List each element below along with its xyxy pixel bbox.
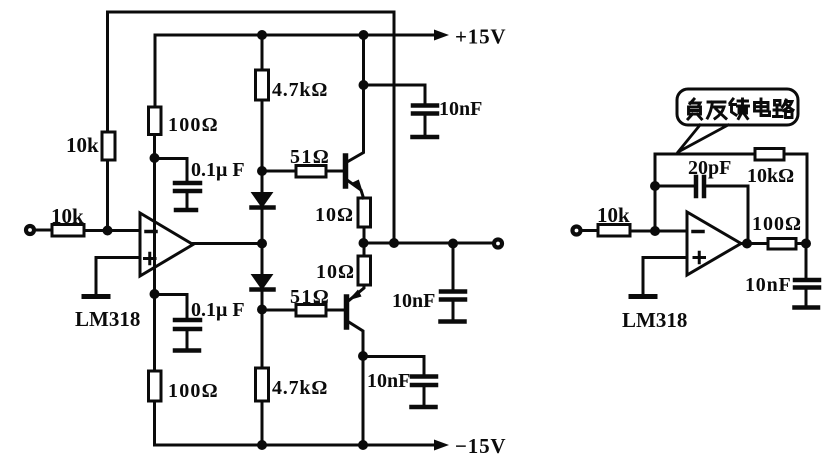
svg-text:LM318: LM318 <box>75 307 140 331</box>
svg-text:4.7kΩ: 4.7kΩ <box>272 79 328 101</box>
node output/emitter top <box>359 238 369 248</box>
wire junction up to feedback resistor <box>106 160 109 230</box>
svg-text:10k: 10k <box>66 133 99 157</box>
capacitor 10nF (right) stem + ground bar <box>805 290 808 306</box>
capacitor 10nF (top) stem + ground bar <box>424 116 427 135</box>
capacitor 10nF (top, +15V bypass): tap wire <box>364 85 426 103</box>
output terminal (left circuit) <box>494 240 502 248</box>
wire 4.7k lower to bottom rail <box>261 401 264 445</box>
svg-text:0.1μ F: 0.1μ F <box>191 159 245 181</box>
ground (left op-amp) <box>84 294 108 299</box>
wire feedback top run <box>655 153 807 156</box>
resistor 10 ohm (lower emitter) <box>358 256 371 285</box>
capacitor 0.1uF (lower): tap wire <box>155 295 188 319</box>
wire D2 to lower base node <box>261 291 264 368</box>
diode D1 <box>253 193 272 207</box>
node +15V / collector <box>359 30 369 40</box>
svg-text:51Ω: 51Ω <box>290 286 330 308</box>
node 20pF tap <box>650 181 660 191</box>
wire: top feedback run <box>108 11 395 14</box>
op-amp U1 LM318 (left) <box>140 213 193 276</box>
char 反 <box>708 102 727 119</box>
wire R10k to op-amp (right) <box>630 230 687 233</box>
wire op-amp output (right) <box>741 242 768 245</box>
capacitor 0.1uF (upper) plates <box>175 183 200 191</box>
wire -15V rail <box>155 444 437 447</box>
transistor Q2 emitter arrow <box>348 290 362 301</box>
wire inverting node up feedback left leg <box>654 154 657 231</box>
resistor 100 ohm (right, series out) <box>768 239 796 250</box>
wire +15V rail <box>155 34 436 37</box>
capacitor 10nF (right) plates <box>795 280 819 288</box>
svg-text:0.1μ F: 0.1μ F <box>191 299 245 321</box>
node output/10nF <box>448 239 458 249</box>
transistor Q1 collector <box>347 85 364 162</box>
node right output <box>801 239 811 249</box>
char 负 <box>688 99 702 119</box>
wire node to 51 ohm (lower) <box>262 309 296 312</box>
wire feedback resistor to top rail <box>106 12 109 132</box>
resistor 10k (feedback, vertical) <box>102 132 115 160</box>
node upper base drive <box>257 166 267 176</box>
wire input to R 10k <box>34 229 52 232</box>
node lower base drive <box>257 305 267 315</box>
wire: feedback drop to output rail <box>393 12 396 243</box>
capacitor 0.1uF (lower) plates <box>175 320 200 329</box>
capacitor 10nF (top) plates <box>413 106 437 114</box>
wire V+ node down through op-amp to V- node <box>153 158 156 294</box>
svg-text:10nF: 10nF <box>439 98 482 120</box>
svg-text:10Ω: 10Ω <box>316 261 355 283</box>
callout tail <box>678 125 728 152</box>
capacitor 0.1uF (lower) stem + ground bar <box>186 331 189 348</box>
svg-text:10kΩ: 10kΩ <box>747 165 794 187</box>
wire node to 51 ohm (upper) <box>262 170 296 173</box>
capacitor 20pF: left wire <box>655 185 694 188</box>
resistor 10k (series input, left) <box>52 225 84 237</box>
diode D2 <box>261 243 264 275</box>
transistor Q2 collector <box>348 322 363 357</box>
wire output rail <box>364 242 493 245</box>
node V+ tap <box>150 153 160 163</box>
svg-text:100Ω: 100Ω <box>752 213 802 235</box>
wire input to R 10k (right) <box>581 229 598 232</box>
input terminal (right) <box>573 227 581 235</box>
wire feedback right leg <box>806 154 809 243</box>
svg-text:100Ω: 100Ω <box>168 114 219 136</box>
node V- tap <box>150 289 160 299</box>
callout bubble (negative feedback circuit) <box>677 89 798 125</box>
wire output rail to 10 ohm lower <box>363 243 366 256</box>
op-amp U2 minus sign <box>693 230 703 234</box>
svg-text:10Ω: 10Ω <box>315 204 354 226</box>
svg-text:4.7kΩ: 4.7kΩ <box>272 377 328 399</box>
svg-text:20pF: 20pF <box>688 157 731 179</box>
op-amp U1 plus sign <box>145 253 156 264</box>
char 馈 <box>730 99 749 119</box>
arrowhead -15V <box>434 440 449 451</box>
transistor Q2 (PNP) base bar <box>344 297 350 327</box>
wire op-amp output to bias chain <box>193 242 262 245</box>
wire D1 to output node <box>261 208 264 243</box>
capacitor 0.1uF (upper): tap wire <box>155 159 188 182</box>
char 路 <box>774 100 794 118</box>
capacitor 10nF (bottom bypass): tap wire <box>363 357 424 375</box>
svg-text:10nF: 10nF <box>392 290 435 312</box>
svg-text:10k: 10k <box>597 203 630 227</box>
capacitor 0.1uF (upper) stem + ground bar <box>186 193 189 207</box>
op-amp U1 minus sign <box>146 230 156 234</box>
resistor 51 ohm (lower) <box>296 305 326 317</box>
svg-text:10k: 10k <box>51 204 84 228</box>
resistor 4.7k (lower) <box>256 368 269 401</box>
node -15V / 4.7k lower <box>257 440 267 450</box>
resistor 10 ohm (upper emitter) <box>358 198 371 227</box>
ground (right op-amp) <box>631 294 655 299</box>
wire 51 ohm to Q1 base <box>326 170 343 173</box>
svg-text:LM318: LM318 <box>622 308 687 332</box>
transistor Q1 emitter <box>347 180 364 198</box>
wire V- node down to lower 100 ohm <box>153 294 156 371</box>
arrowhead +15V <box>434 30 449 41</box>
svg-text:10nF: 10nF <box>367 370 410 392</box>
transistor Q1 (NPN) base bar <box>343 156 349 186</box>
resistor 51 ohm (upper) <box>296 166 326 178</box>
node Q1 collector / bypass tap <box>359 80 369 90</box>
wire collector node to -15V rail <box>362 356 365 445</box>
resistor 4.7k (upper) <box>256 70 269 100</box>
node output/feedback <box>389 238 399 248</box>
svg-text:10nF: 10nF <box>745 274 792 296</box>
capacitor 10nF (output): drop wire <box>452 243 455 289</box>
node -15V / collector <box>358 440 368 450</box>
svg-text:−15V: −15V <box>455 434 506 458</box>
capacitor 10nF (bottom) stem + ground bar <box>423 387 426 404</box>
capacitor 10nF (right): drop wire <box>805 244 808 279</box>
op-amp U2 plus sign <box>694 252 705 263</box>
capacitor 20pF right wire <box>706 186 748 243</box>
transistor Q2 emitter <box>350 285 365 300</box>
svg-text:+15V: +15V <box>455 25 506 49</box>
node op-amp output / bias chain <box>257 239 267 249</box>
label CJK: 负反馈电路 (hand-drawn strokes) <box>688 99 793 119</box>
node: inverting input junction <box>103 226 113 236</box>
resistor 100 ohm (upper bypass) <box>149 107 162 135</box>
node +15V / 4.7k top <box>257 30 267 40</box>
wire 100 ohm to right node <box>796 242 807 245</box>
wire collector node to +15V rail <box>362 35 365 85</box>
wire 4.7k to upper base node <box>261 100 264 193</box>
resistor 100 ohm (lower bypass) <box>149 371 162 401</box>
capacitor 10nF (output) stem + ground bar <box>452 302 455 320</box>
wire 10 ohm to output rail <box>363 227 366 243</box>
node Q2 collector / bypass tap <box>358 351 368 361</box>
svg-text:51Ω: 51Ω <box>290 146 330 168</box>
wire noninverting to ground (right) <box>643 258 687 295</box>
capacitor 10nF (bottom) plates <box>412 377 436 386</box>
capacitor 10nF (output) plates <box>441 292 465 300</box>
wire 51 ohm to Q2 base <box>326 309 344 312</box>
wire 100ohm to V+ node <box>153 135 156 159</box>
input terminal (left) <box>26 226 34 234</box>
svg-text:100Ω: 100Ω <box>168 380 219 402</box>
wire R10k to op-amp inverting input <box>84 229 140 232</box>
wire +15V rail down to upper 100 ohm <box>154 35 157 107</box>
resistor 10k ohm (feedback, right) <box>755 149 784 161</box>
wire lower 100ohm to bottom rail <box>153 401 156 445</box>
transistor Q1 emitter arrow <box>353 180 364 195</box>
wire rail to 4.7k top <box>261 35 264 70</box>
char 电 <box>755 99 770 116</box>
wire noninverting input to ground <box>96 258 140 295</box>
resistor 10k (input, right) <box>598 225 630 237</box>
capacitor 20pF plates <box>696 177 704 196</box>
op-amp U2 LM318 (right) <box>687 212 741 275</box>
node output / 20pF drop <box>742 239 752 249</box>
node inverting input (right) <box>650 226 660 236</box>
